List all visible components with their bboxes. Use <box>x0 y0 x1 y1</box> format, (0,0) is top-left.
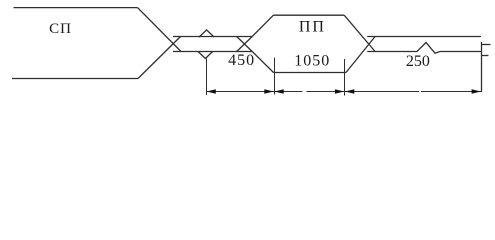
dimension line 250 right part <box>421 91 482 93</box>
insulated joint X3 diagonal from PP top <box>344 15 375 51</box>
track section SP bottom edge <box>12 78 138 80</box>
track section PP top edge <box>273 14 344 16</box>
track section SP top edge <box>14 7 138 9</box>
arrowhead left at T1 <box>207 89 216 93</box>
svg-text:1050: 1050 <box>294 53 330 70</box>
frog marker upper triangle <box>199 30 214 37</box>
extension line T2 <box>274 58 276 95</box>
frog marker lower triangle <box>198 52 213 59</box>
svg-text:450: 450 <box>228 52 255 69</box>
wire diagonal from SP bottom to band <box>138 37 181 79</box>
insulated joint X2 crossing <box>237 37 253 52</box>
insulated joint X3 diagonal from PP bottom <box>346 37 375 73</box>
wire diagonal X2 to PP hexagon top <box>252 15 273 36</box>
rail band bottom line between joints <box>173 51 252 53</box>
svg-text:СП: СП <box>49 21 72 37</box>
end bracket vertical <box>481 42 483 92</box>
arrowhead left at T2 <box>274 89 283 93</box>
svg-text:250: 250 <box>406 53 430 70</box>
dimension line 250 left part <box>345 91 420 93</box>
wire diagonal X2 to PP hexagon bottom <box>252 52 273 73</box>
svg-text:ПП: ПП <box>299 19 326 36</box>
arrowhead left at T3 <box>345 89 354 93</box>
wire diagonal from SP top to band (insulated joint X left) <box>138 8 182 52</box>
arrowhead right at end bracket <box>472 89 481 93</box>
dimension line 1050 right part <box>307 91 345 93</box>
track section PP bottom edge <box>274 72 347 74</box>
end bracket lower lead <box>482 55 489 57</box>
rail bottom line right section with break <box>367 43 481 54</box>
arrowhead right at T3 <box>335 89 344 93</box>
rail top line right section <box>367 36 481 38</box>
rail band top line between joints <box>173 36 252 38</box>
dimension line 1050 left part <box>275 91 303 93</box>
dimension line 450 <box>207 91 275 93</box>
extension line T1 at frog <box>206 59 208 96</box>
extension line T3 <box>344 59 346 96</box>
arrowhead right at T2 <box>264 89 273 93</box>
end bracket upper lead <box>482 44 491 46</box>
